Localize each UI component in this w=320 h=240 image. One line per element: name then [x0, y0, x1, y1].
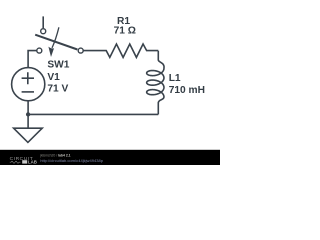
footer bar	[0, 150, 220, 165]
switch SW1 top throw terminal	[41, 29, 46, 34]
svg-text:LAB: LAB	[28, 160, 37, 165]
wire: switch left terminal to V1 positive	[28, 51, 37, 68]
switch SW1 right terminal	[78, 48, 83, 53]
svg-text:SW1: SW1	[47, 60, 69, 71]
svg-text:http://circuitlab.com/c44jkjw4: http://circuitlab.com/c44jkjw49438p	[40, 158, 104, 163]
resistor R1 with leads	[83, 44, 158, 57]
svg-text:L1: L1	[169, 73, 181, 84]
inductor L1 with leads	[147, 51, 164, 115]
CircuitLab logo waveform	[10, 161, 21, 163]
switch SW1 lever	[35, 35, 77, 50]
wire: bottom return from node to L1	[28, 113, 158, 115]
voltage source V1 minus sign	[22, 91, 34, 93]
svg-text:71 V: 71 V	[47, 83, 68, 94]
ground	[14, 114, 43, 142]
wire: open stub above switch	[42, 16, 44, 28]
svg-text:710 mH: 710 mH	[169, 85, 205, 96]
node: junction dot at ground	[26, 112, 30, 116]
switch SW1 left terminal	[37, 48, 42, 53]
svg-text:V1: V1	[47, 72, 60, 83]
wire: V1 negative to ground node	[27, 101, 29, 115]
voltage source V1 plus sign	[22, 72, 34, 84]
svg-text:71 Ω: 71 Ω	[114, 26, 136, 37]
switch SW1 actuation arrow	[48, 27, 59, 57]
CircuitLab logo mark	[22, 160, 27, 163]
voltage source V1 body	[12, 68, 45, 101]
